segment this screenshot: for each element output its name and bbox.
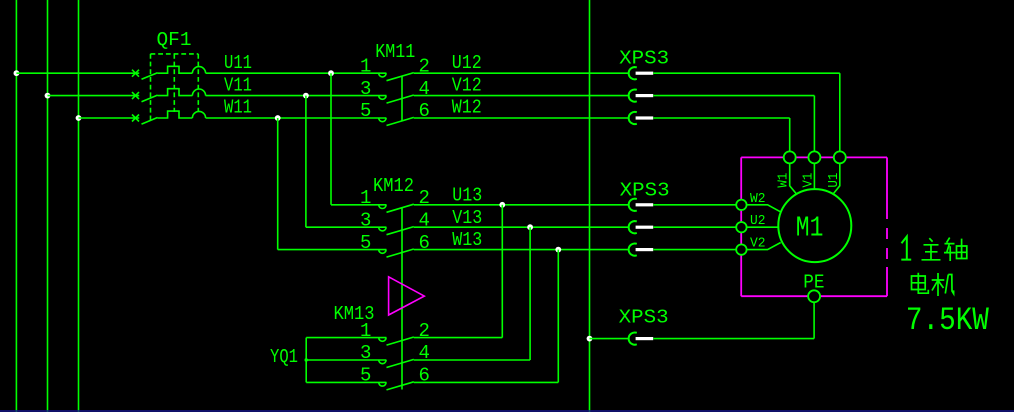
- svg-text:XPS3: XPS3: [619, 48, 669, 70]
- contactor KM12 pin 5 fixed contact: [379, 250, 386, 254]
- wire terminal W1 to stator: [790, 163, 798, 195]
- wire bus to QF1 pole 1: [16, 72, 139, 74]
- wire U12 KM11 to XPS3: [414, 72, 629, 74]
- contactor KM13 pin 1 fixed contact: [379, 338, 386, 342]
- wire W13 XPS3 to motor terminal: [653, 249, 736, 251]
- wire U12 drop to motor terminal: [839, 73, 841, 151]
- PE bus (long vertical): [589, 0, 591, 412]
- wire rise to PE terminal: [813, 302, 815, 338]
- motor M1 enclosure box bottom edge: [741, 295, 887, 297]
- QF1 linkage dashed box top: [151, 53, 199, 55]
- node junction dot U13 / KM13 feed: [499, 202, 505, 208]
- contactor KM11 pin 5/6 blade: [387, 117, 414, 125]
- svg-text:2: 2: [419, 187, 430, 209]
- wire KM13 pin 2 output: [414, 337, 503, 339]
- wire YQ1 to KM13 pin 3: [306, 359, 386, 361]
- connector XPS3 pin V13: [629, 221, 637, 233]
- three-phase supply bus L3 (vertical): [78, 0, 80, 412]
- svg-text:U11: U11: [224, 52, 252, 74]
- wire U13 XPS3 to motor terminal: [653, 204, 736, 206]
- wire branch V11 down to KM12 pin 3: [305, 96, 307, 228]
- motor M1 enclosure box right edge upper: [886, 157, 888, 208]
- wire V12 KM11 to XPS3: [414, 95, 629, 97]
- svg-text:V13: V13: [452, 207, 482, 229]
- contactor KM11 linkage bar: [401, 76, 403, 121]
- svg-text:1: 1: [360, 55, 371, 77]
- svg-text:V11: V11: [224, 74, 252, 96]
- QF1 linkage dashed left vertical: [150, 54, 152, 121]
- svg-text:W13: W13: [452, 229, 482, 251]
- contactor KM12/KM13 linkage bar: [401, 208, 403, 390]
- svg-text:KM11: KM11: [375, 41, 415, 63]
- wire to KM12 pin 1: [331, 204, 386, 206]
- svg-text:XPS3: XPS3: [619, 307, 669, 329]
- wire V13 KM12 to XPS3: [414, 226, 629, 228]
- contactor KM12 pin 1/2 blade: [387, 204, 414, 212]
- circuit breaker QF1 pole 1 thermal element: [158, 66, 193, 73]
- motor terminal PE circle: [808, 290, 820, 302]
- svg-text:4: 4: [419, 209, 430, 231]
- circuit breaker QF1 pole 2 thermal element: [158, 89, 193, 96]
- contactor KM13 pin 5/6 blade: [387, 382, 414, 390]
- YQ1 bracket vertical: [305, 338, 307, 383]
- wire branch U11 down to KM12 pin 1: [330, 73, 332, 205]
- wire YQ1 to KM13 pin 5: [306, 381, 386, 383]
- svg-text:XPS3: XPS3: [620, 180, 670, 202]
- svg-text:6: 6: [419, 365, 430, 387]
- circuit breaker QF1 pole 3 X mark: [132, 115, 139, 122]
- connector XPS3 pin PE: [629, 333, 637, 345]
- node junction dot V13 / KM13 feed: [527, 224, 533, 230]
- connector XPS3 pin U12: [629, 67, 637, 79]
- wire terminal U1 to stator: [832, 163, 840, 195]
- connector XPS3 pin U13: [629, 199, 637, 211]
- svg-text:M1: M1: [796, 211, 824, 244]
- node junction dot PE tap on bus: [587, 336, 593, 342]
- wire terminal V1 to stator: [813, 163, 815, 189]
- svg-text:5: 5: [360, 232, 371, 254]
- contactor KM12 pin 3/4 blade: [387, 227, 414, 235]
- wire U12 XPS3 to motor terminal: [653, 72, 840, 74]
- contactor KM12 pin 3 fixed contact: [379, 227, 386, 231]
- contactor KM11 pin 1/2 blade: [387, 73, 414, 81]
- contactor KM11 pin 3/4 blade: [387, 95, 414, 103]
- svg-text:1: 1: [360, 320, 371, 342]
- wire terminal W2 to stator: [747, 205, 781, 212]
- node junction dot row V11 branch: [303, 93, 309, 99]
- svg-text:W12: W12: [452, 97, 482, 119]
- contactor KM11 pin 5 fixed contact: [379, 118, 386, 122]
- connector XPS3 pin W13: [629, 244, 637, 256]
- node junction dot row W11 branch: [275, 115, 281, 121]
- motor M1 enclosure box left edge: [740, 157, 742, 296]
- svg-text:2: 2: [419, 55, 430, 77]
- wire KM13 pin 4 output: [414, 359, 530, 361]
- motor terminal V2 circle: [736, 244, 746, 254]
- motor terminal U1 circle: [834, 151, 846, 163]
- QF1 linkage dashed middle vertical: [173, 54, 175, 112]
- contactor KM13 pin 3/4 blade: [387, 359, 414, 367]
- wire YQ1 to KM13 pin 1: [306, 337, 386, 339]
- annotation character zhou (axis): [944, 238, 967, 261]
- wire KM13 pin 6 rise to W13: [557, 250, 559, 383]
- wire W13 KM12 to XPS3: [414, 249, 629, 251]
- wire U11 QF1 to KM11 pin 1: [206, 72, 387, 74]
- svg-text:6: 6: [419, 100, 430, 122]
- circuit breaker QF1 pole 1 X mark: [132, 70, 139, 77]
- svg-text:2: 2: [419, 320, 430, 342]
- svg-text:1: 1: [360, 187, 371, 209]
- wire KM13 pin 4 rise to V13: [529, 227, 531, 360]
- svg-text:U13: U13: [452, 184, 482, 206]
- connector XPS3 pin V12: [629, 89, 637, 101]
- svg-text:5: 5: [360, 365, 371, 387]
- svg-text:4: 4: [419, 342, 430, 364]
- wire PE bus to XPS3: [590, 338, 629, 340]
- annotation character ji (machine): [932, 273, 954, 296]
- wire KM13 pin 2 rise to U13: [501, 205, 503, 338]
- node V11 junction dot on bus: [45, 93, 51, 99]
- contactor KM11 pin 1 fixed contact: [379, 73, 386, 77]
- wire V12 XPS3 to motor terminal: [653, 95, 814, 97]
- node junction dot row U11 branch: [328, 70, 334, 76]
- circuit breaker QF1 pole 3 thermal element: [158, 111, 193, 118]
- wire to KM12 pin 3: [306, 226, 387, 228]
- motor M1 enclosure box right edge lower: [886, 267, 888, 296]
- motor M1 enclosure box top edge: [741, 156, 887, 158]
- three-phase supply bus L2 (vertical): [47, 0, 49, 412]
- annotation big digit 1: [901, 237, 911, 260]
- node junction dot W13 / KM13 feed: [555, 247, 561, 253]
- motor terminal U2 circle: [736, 222, 746, 232]
- circuit breaker QF1 pole 1 blade: [142, 73, 158, 80]
- wire KM13 pin 6 output: [414, 381, 559, 383]
- svg-text:6: 6: [419, 232, 430, 254]
- svg-text:7.5KW: 7.5KW: [906, 302, 990, 339]
- node U11 junction dot on bus: [14, 70, 20, 76]
- motor terminal W2 circle: [736, 200, 746, 210]
- wire V11 QF1 to KM11 pin 3: [206, 95, 387, 97]
- contactor KM13 pin 3 fixed contact: [379, 360, 386, 364]
- bottom border line: [0, 410, 1014, 412]
- contactor KM12 pin 5/6 blade: [387, 249, 414, 257]
- node W11 junction dot on bus: [76, 115, 82, 121]
- annotation character dian (electric): [912, 273, 929, 293]
- wire V13 XPS3 to motor terminal: [653, 226, 736, 228]
- svg-text:5: 5: [360, 100, 371, 122]
- motor M1 stator circle: [778, 189, 851, 262]
- contactor KM13 pin 1/2 blade: [387, 337, 414, 345]
- annotation character zhu (main): [922, 238, 941, 260]
- contactor KM13 pin 5 fixed contact: [379, 382, 386, 386]
- motor terminal V1 circle: [808, 151, 820, 163]
- wire V12 drop to motor terminal: [813, 96, 815, 152]
- circuit breaker QF1 pole 2 magnetic element arc: [192, 89, 205, 96]
- wire terminal U2 to stator: [747, 226, 778, 228]
- wire to KM12 pin 5: [278, 249, 387, 251]
- wire U13 KM12 to XPS3: [414, 204, 629, 206]
- wire W12 drop to motor terminal: [789, 118, 791, 151]
- svg-text:4: 4: [419, 78, 430, 100]
- svg-text:3: 3: [360, 342, 371, 364]
- circuit breaker QF1 pole 3 magnetic element arc: [192, 111, 205, 118]
- wire terminal V2 to stator: [747, 243, 781, 250]
- node YQ1 tie dot: [305, 358, 308, 361]
- svg-text:KM12: KM12: [373, 175, 414, 197]
- svg-text:3: 3: [360, 209, 371, 231]
- circuit breaker QF1 pole 3 blade: [142, 118, 158, 125]
- wire bus to QF1 pole 2: [48, 95, 140, 97]
- circuit breaker QF1 pole 2 X mark: [132, 92, 139, 99]
- wire W11 QF1 to KM11 pin 5: [206, 117, 387, 119]
- wire branch W11 down to KM12 pin 5: [277, 118, 279, 250]
- svg-text:W11: W11: [224, 97, 252, 119]
- svg-text:3: 3: [360, 78, 371, 100]
- contactor KM11 pin 3 fixed contact: [379, 96, 386, 100]
- svg-text:V12: V12: [452, 74, 482, 96]
- circuit breaker QF1 pole 2 blade: [142, 95, 158, 102]
- wire W12 KM11 to XPS3: [414, 117, 629, 119]
- QF1 linkage dashed right vertical: [197, 54, 199, 112]
- wire bus to QF1 pole 3: [79, 117, 140, 119]
- contactor KM12 pin 1 fixed contact: [379, 205, 386, 209]
- wire W12 XPS3 to motor terminal: [653, 117, 790, 119]
- mechanical interlock triangle: [389, 277, 425, 315]
- wire XPS3 to motor PE: [653, 338, 814, 340]
- svg-text:QF1: QF1: [157, 29, 192, 51]
- svg-text:YQ1: YQ1: [270, 346, 298, 368]
- connector XPS3 pin W12: [629, 112, 637, 124]
- motor M1 enclosure box right edge dashed middle: [886, 208, 888, 267]
- motor terminal W1 circle: [784, 151, 796, 163]
- three-phase supply bus L1 (vertical): [15, 0, 17, 412]
- svg-text:U12: U12: [452, 52, 482, 74]
- circuit breaker QF1 pole 1 magnetic element arc: [192, 67, 205, 74]
